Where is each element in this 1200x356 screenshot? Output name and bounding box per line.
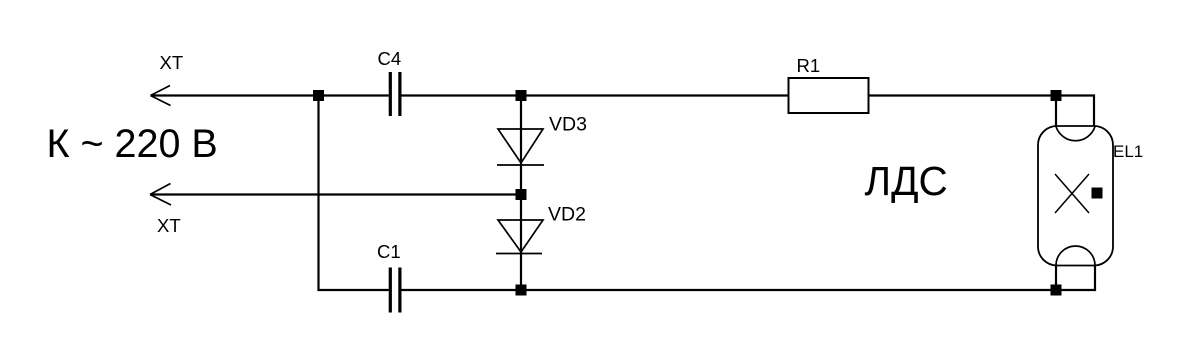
svg-text:XT: XT — [160, 52, 184, 73]
svg-text:VD2: VD2 — [548, 204, 586, 226]
wire: top rail from R1 to lamp top right pin — [869, 96, 1095, 127]
lamp EL1 bottom electrode arc — [1056, 246, 1095, 265]
svg-text:EL1: EL1 — [1113, 142, 1143, 161]
capacitor C4 — [389, 72, 402, 116]
junction: lamp top left pin node — [1051, 90, 1062, 101]
wire: top rail from terminal XT1 to C4 left plate — [151, 94, 389, 96]
junction node A: top rail / left branch — [313, 90, 324, 101]
svg-text:ЛДС: ЛДС — [865, 158, 948, 204]
svg-text:VD3: VD3 — [549, 114, 587, 136]
lamp EL1 envelope — [1038, 126, 1113, 266]
resistor R1 — [789, 78, 869, 113]
lamp EL1 top electrode arc — [1056, 127, 1095, 141]
svg-text:C1: C1 — [377, 241, 401, 262]
junction node C: middle rail / diode chain — [516, 189, 527, 200]
terminal XT1 arrowhead — [151, 86, 171, 106]
wire: lamp bottom left pin — [1055, 266, 1057, 291]
svg-text:XT: XT — [157, 215, 181, 236]
terminal XT2 arrowhead — [150, 184, 171, 206]
wire: top rail from C4 right plate to R1 — [402, 94, 789, 96]
wire: lamp top left pin — [1055, 96, 1057, 127]
wire: diode chain vertical (node B to node D) — [520, 96, 522, 291]
wire: bottom rail from C1 right plate to lamp bottom pins — [402, 266, 1096, 291]
capacitor C1 — [389, 268, 402, 313]
wire: middle rail from terminal XT2 to node C — [150, 193, 521, 195]
junction node B: top rail / diode chain — [516, 90, 527, 101]
junction node D: bottom rail / diode chain — [516, 285, 527, 296]
diode VD3 — [497, 129, 544, 165]
lamp EL1 discharge X mark — [1055, 174, 1089, 213]
lamp EL1 dot mark — [1092, 188, 1103, 199]
diode VD2 — [496, 220, 543, 254]
svg-text:К ~ 220 В: К ~ 220 В — [47, 122, 218, 166]
wire: left branch from node A down and along bottom to C1 — [319, 96, 389, 291]
junction: lamp bottom left pin node — [1051, 285, 1062, 296]
svg-text:R1: R1 — [797, 55, 821, 76]
svg-text:C4: C4 — [378, 48, 402, 69]
